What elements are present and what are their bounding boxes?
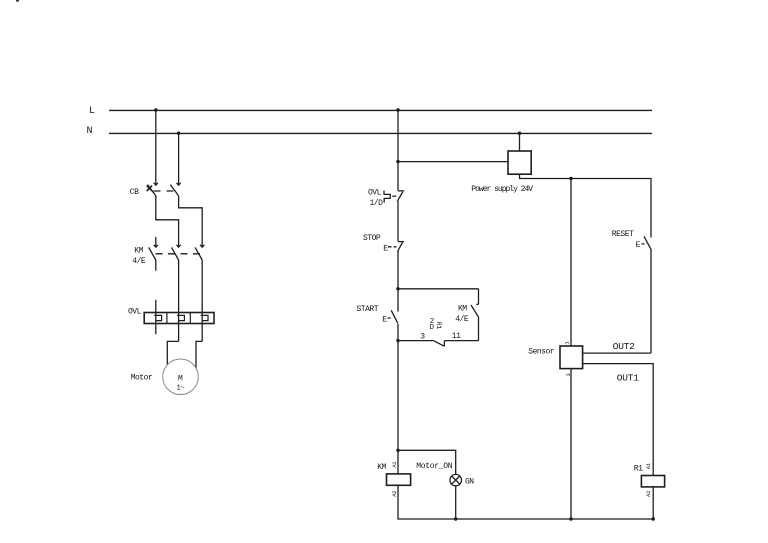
svg-text:START: START: [357, 305, 379, 314]
junction dot sensor/bottom: [569, 517, 572, 520]
wire L to CB pole1: [155, 110, 157, 185]
contact START blade: [391, 310, 398, 323]
overload relay OVL box: [144, 313, 214, 324]
svg-text:STOP: STOP: [363, 234, 381, 243]
control rail from L: [397, 110, 399, 191]
svg-text:KM: KM: [377, 463, 386, 472]
rail to power supply: [398, 161, 508, 163]
wire CB1 out jog: [156, 196, 179, 247]
svg-text:CB: CB: [130, 188, 139, 197]
svg-text:KM: KM: [458, 305, 467, 314]
wire to sensor: [570, 179, 572, 347]
rail segment: [397, 324, 399, 474]
motor M 1~ circle: [163, 359, 199, 395]
node N (neutral bus): [109, 132, 652, 134]
contactor KM pole1 fixed tick: [154, 245, 158, 247]
svg-text:E: E: [382, 315, 387, 324]
node L (phase bus): [109, 109, 652, 111]
wire OUT2: [583, 352, 651, 354]
wire OUT1: [583, 364, 654, 476]
wire KM1 bottom stub: [155, 260, 157, 271]
OVL heater element pole2: [177, 315, 184, 320]
svg-text:RESET: RESET: [612, 230, 634, 239]
circuit breaker CB pole2 blade: [170, 185, 178, 196]
circuit breaker CB pole1 blade: [148, 185, 156, 196]
wire OVL2 to motor: [167, 341, 178, 364]
svg-text:L: L: [89, 106, 95, 117]
svg-text:E: E: [636, 241, 641, 250]
wire OVL3 to motor: [196, 341, 202, 368]
contactor KM pole2 blade: [172, 247, 179, 260]
svg-text:4/E: 4/E: [132, 257, 146, 266]
power supply box: [508, 151, 531, 174]
junction dot branch bottom: [396, 339, 399, 342]
svg-text:E: E: [383, 244, 388, 253]
junction dot branch top: [396, 287, 399, 290]
junction dot N/psu: [518, 132, 521, 135]
svg-text:4/E: 4/E: [455, 315, 469, 324]
svg-text:11: 11: [452, 332, 461, 341]
contactor coil KM box: [387, 474, 411, 485]
svg-text:Motor_ON: Motor_ON: [416, 462, 453, 471]
svg-text:OUT2: OUT2: [613, 341, 636, 352]
svg-text:Power supply 24V: Power supply 24V: [471, 185, 533, 194]
lamp bottom wire: [455, 486, 457, 519]
contact STOP blade: [397, 242, 402, 252]
junction dot N/CB2: [177, 132, 180, 135]
wire psu out: [520, 174, 652, 237]
wire N to CB pole2: [178, 133, 180, 185]
svg-text:D: D: [430, 324, 435, 332]
svg-text:A2: A2: [391, 491, 398, 497]
CB mechanical link (dashed): [154, 190, 175, 192]
RESET E- dash: [642, 243, 647, 245]
svg-text:R1: R1: [435, 322, 442, 330]
svg-text:3: 3: [565, 373, 572, 376]
svg-text:Sensor: Sensor: [528, 347, 555, 356]
junction dot lamp feed: [396, 449, 399, 452]
wire sensor bottom: [570, 369, 572, 519]
circuit breaker CB cross symbol: [147, 186, 153, 191]
svg-text:R1: R1: [634, 464, 643, 473]
svg-text:OUT1: OUT1: [617, 373, 640, 384]
rail segment: [397, 201, 399, 242]
junction dot R1/bottom: [652, 517, 655, 520]
OVL heater element pole1: [154, 315, 161, 320]
OVL divider 1: [166, 313, 168, 324]
wire KM1 to OVL: [155, 300, 157, 334]
contact 3/11 tick: [443, 341, 445, 347]
svg-text:GN: GN: [465, 477, 474, 486]
svg-text:M: M: [178, 374, 183, 383]
svg-text:A2: A2: [645, 491, 652, 497]
OVL divider 2: [189, 313, 191, 324]
contactor KM pole3 blade: [195, 247, 202, 260]
svg-text:1/D: 1/D: [370, 199, 384, 208]
wire CB2 out jog: [179, 196, 203, 247]
contactor KM pole3 fixed tick: [200, 245, 204, 247]
START E- dash: [388, 317, 393, 319]
circuit breaker CB pole2 fixed tick: [177, 183, 181, 185]
contact OVL 1/D blade: [397, 192, 402, 201]
branch top wire: [398, 288, 479, 290]
contact STOP tick: [398, 241, 404, 243]
svg-text:KM: KM: [134, 247, 143, 256]
contact OVL 1/D tick: [398, 190, 404, 192]
wire RESET to OUT2: [650, 250, 652, 354]
wire KM3 down through OVL: [201, 260, 203, 341]
svg-text:A1: A1: [645, 462, 652, 469]
branch right vertical upper: [478, 289, 480, 305]
lamp feed wire: [398, 450, 456, 474]
svg-text:Motor: Motor: [131, 374, 153, 383]
branch right vertical lower: [478, 317, 480, 341]
junction dot rail/L: [396, 108, 399, 111]
contact RESET blade: [644, 236, 651, 249]
svg-text:OVL: OVL: [368, 188, 382, 197]
lamp GN circle: [450, 474, 462, 486]
STOP E- dashes: [388, 246, 397, 248]
lamp GN cross: [452, 476, 460, 484]
contact KM 4/E tick: [476, 303, 478, 305]
relay coil R1 box: [641, 476, 664, 487]
junction dot sensor feed: [569, 177, 572, 180]
junction dot rail/psu: [396, 160, 399, 163]
contact 3/11 blade: [433, 340, 444, 346]
OVL hook dash: [392, 195, 396, 197]
contact KM 4/E blade: [471, 305, 479, 317]
contactor KM pole1 stub: [155, 237, 157, 247]
wire N to power supply: [519, 133, 521, 151]
svg-text:3: 3: [420, 333, 425, 342]
branch bottom wire right: [444, 340, 478, 342]
circuit breaker CB pole1 fixed tick: [154, 183, 158, 185]
artifact dot top-left: [16, 0, 19, 2]
svg-text:1: 1: [564, 341, 571, 345]
rail segment: [397, 251, 399, 311]
contactor KM pole1 blade: [149, 247, 156, 260]
junction dot lamp/bottom: [454, 517, 457, 520]
svg-text:OVL: OVL: [128, 307, 142, 316]
branch bottom wire left: [398, 340, 433, 342]
svg-text:A1: A1: [391, 461, 398, 468]
sensor box: [560, 346, 583, 369]
OVL trip hook: [384, 191, 390, 203]
rail coil to bottom: [398, 485, 653, 519]
svg-text:1~: 1~: [177, 385, 185, 393]
svg-text:N: N: [87, 126, 93, 137]
contactor KM pole2 fixed tick: [177, 245, 181, 247]
wire KM2 down through OVL: [178, 260, 180, 341]
wire R1 to bottom: [652, 487, 654, 519]
junction dot L/CB1: [154, 108, 157, 111]
OVL heater element pole3: [201, 315, 208, 320]
KM mechanical link (dashed): [156, 253, 201, 255]
